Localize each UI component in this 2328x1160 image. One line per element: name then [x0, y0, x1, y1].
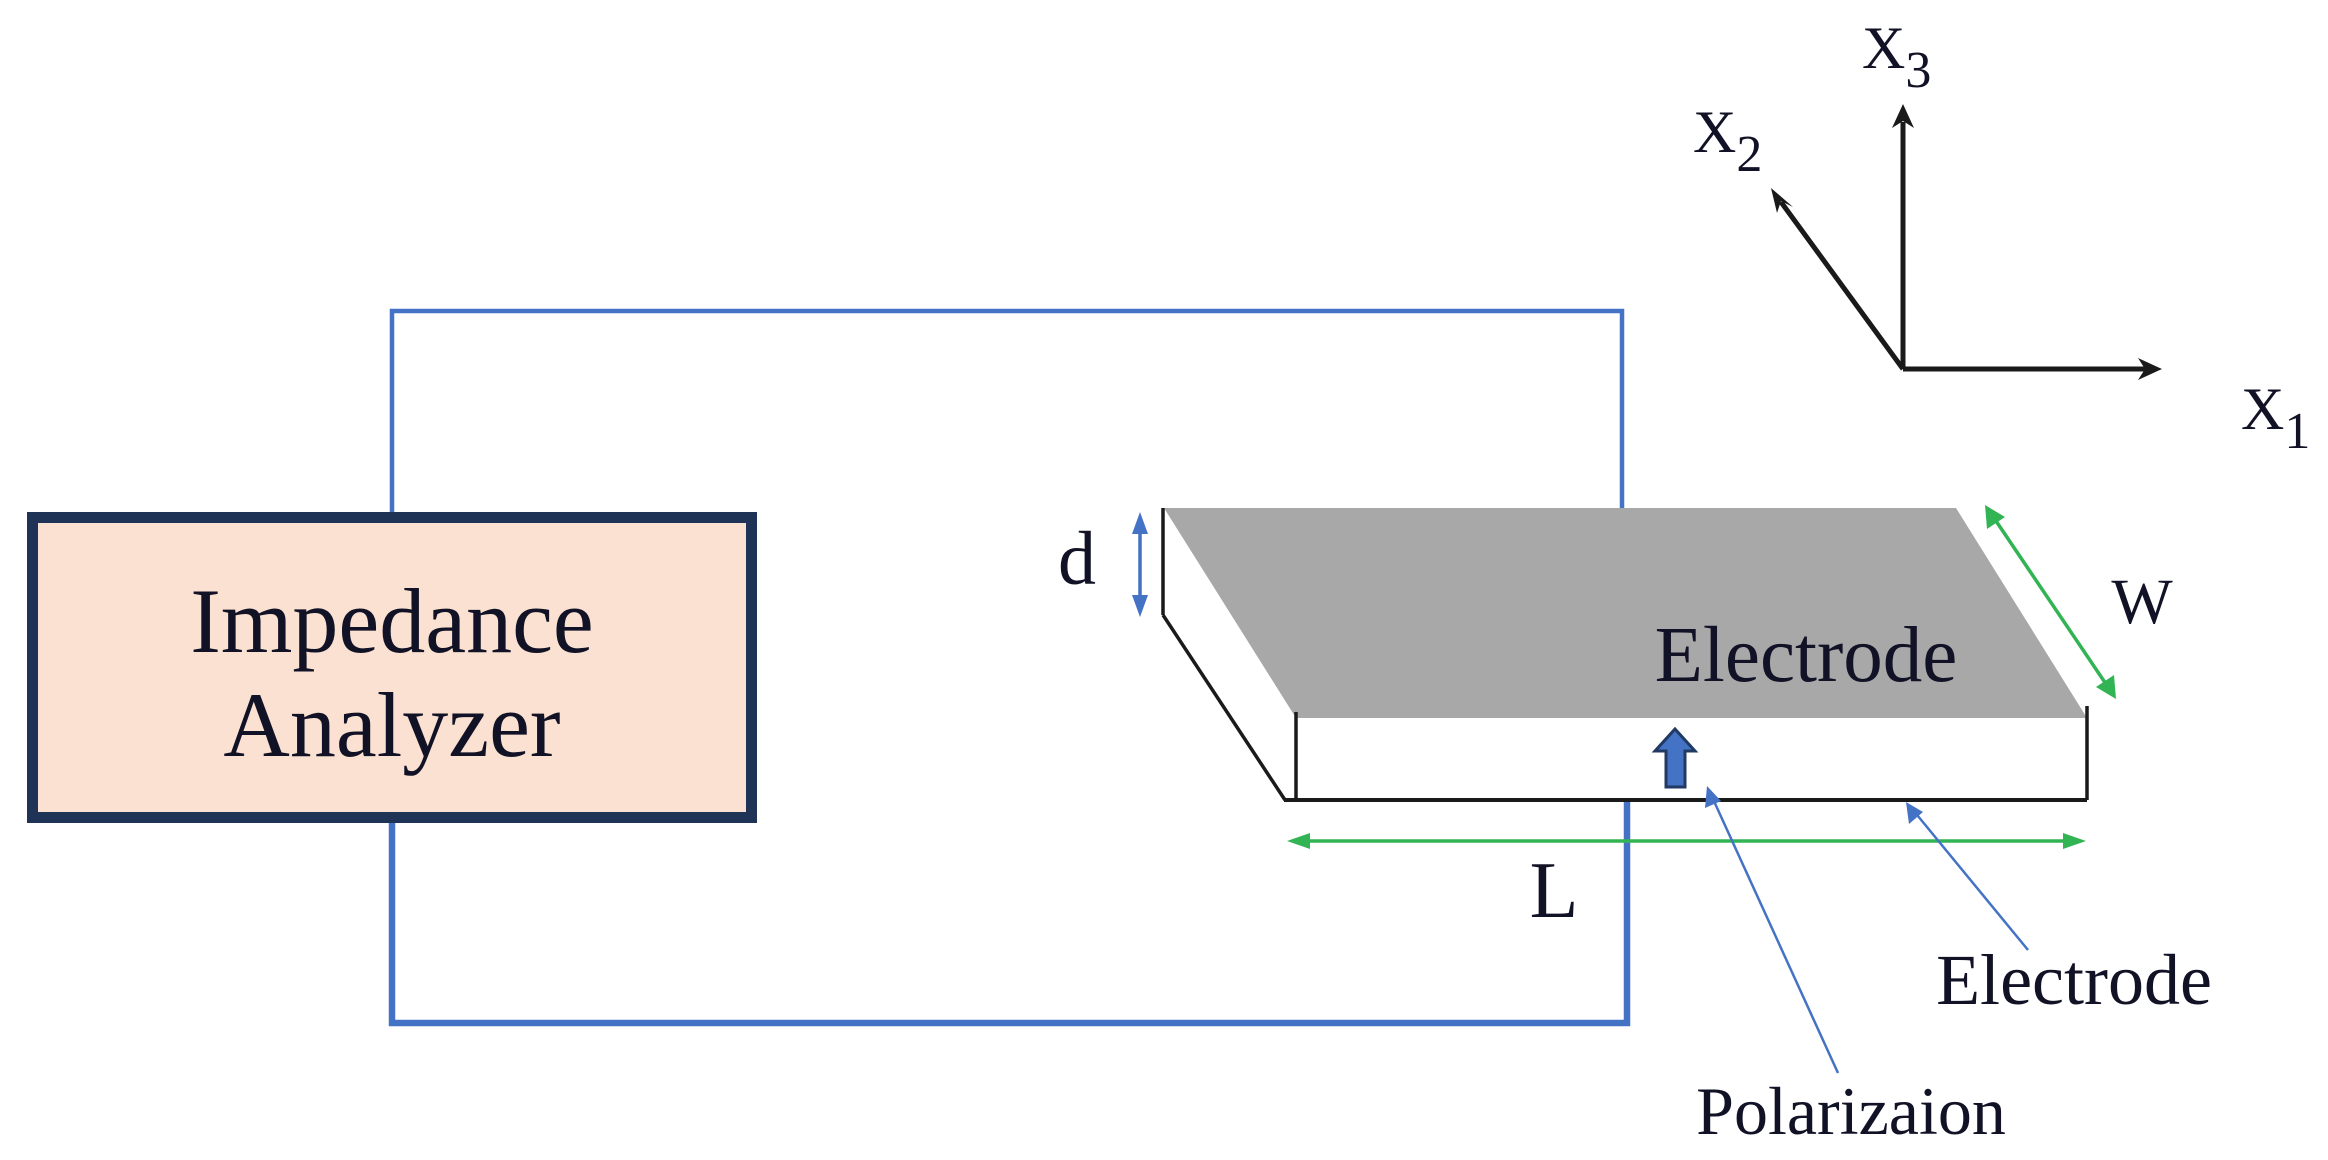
svg-text:Electrode: Electrode [1655, 612, 1958, 699]
svg-text:X1: X1 [2241, 376, 2310, 460]
svg-text:X2: X2 [1693, 99, 1762, 183]
svg-text:W: W [2111, 566, 2173, 638]
svg-text:L: L [1530, 847, 1579, 935]
svg-text:Polarizaion: Polarizaion [1696, 1073, 2006, 1149]
svg-text:Analyzer: Analyzer [223, 674, 560, 776]
svg-text:X3: X3 [1862, 15, 1931, 99]
svg-text:d: d [1058, 517, 1096, 601]
svg-text:Impedance: Impedance [190, 570, 594, 672]
svg-text:Electrode: Electrode [1936, 940, 2212, 1020]
